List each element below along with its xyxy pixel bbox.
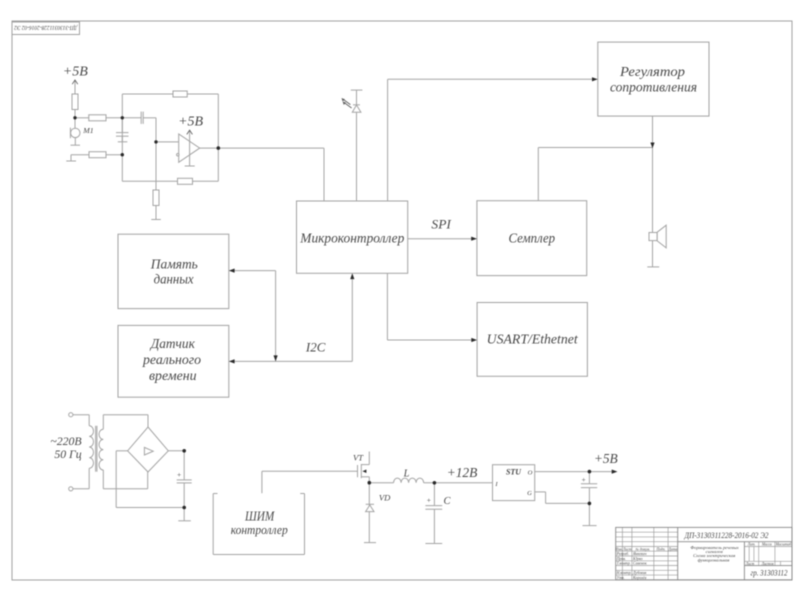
svg-text:Листов: Листов xyxy=(760,562,773,566)
svg-text:Датчик: Датчик xyxy=(149,336,196,351)
svg-text:Т.контр.: Т.контр. xyxy=(617,562,631,566)
svg-text:G: G xyxy=(527,490,532,497)
svg-text:Королёв: Королёв xyxy=(632,576,647,580)
svg-text:C: C xyxy=(444,496,452,507)
svg-text:Масса: Масса xyxy=(761,543,772,547)
svg-text:Юрко: Юрко xyxy=(632,557,643,561)
svg-text:времени: времени xyxy=(149,368,197,383)
svg-text:I2C: I2C xyxy=(305,341,326,355)
svg-text:Н.контр.: Н.контр. xyxy=(616,571,632,575)
svg-text:USART/Ethetnet: USART/Ethetnet xyxy=(487,332,579,347)
svg-text:ДП-3130311228-2016-02 Э2: ДП-3130311228-2016-02 Э2 xyxy=(684,530,769,540)
svg-text:Лист: Лист xyxy=(622,547,632,551)
svg-text:+5В: +5В xyxy=(63,65,88,80)
svg-text:Регулятор: Регулятор xyxy=(619,64,685,79)
svg-text:Пров.: Пров. xyxy=(616,557,626,561)
svg-text:Подп.: Подп. xyxy=(655,547,665,551)
svg-text:STU: STU xyxy=(506,468,522,477)
svg-text:Масштаб: Масштаб xyxy=(775,543,792,547)
svg-text:L: L xyxy=(403,469,410,480)
svg-text:+12В: +12В xyxy=(447,465,478,480)
svg-text:данных: данных xyxy=(154,271,194,286)
svg-text:Память: Память xyxy=(150,257,198,272)
svg-text:SPI: SPI xyxy=(431,218,451,232)
svg-text:50 Гц: 50 Гц xyxy=(54,447,81,461)
svg-text:+: + xyxy=(176,470,181,479)
svg-text:сопротивления: сопротивления xyxy=(610,79,697,94)
svg-text:Изм.: Изм. xyxy=(614,547,622,551)
svg-text:Семплер: Семплер xyxy=(509,231,556,246)
svg-text:Савенок: Савенок xyxy=(633,562,647,566)
svg-text:O: O xyxy=(528,470,533,477)
svg-text:Дата: Дата xyxy=(668,547,678,551)
svg-text:+: + xyxy=(581,475,586,484)
svg-text:Утв.: Утв. xyxy=(617,576,625,580)
svg-text:№ докум.: № докум. xyxy=(634,547,650,551)
svg-text:+5В: +5В xyxy=(594,451,618,466)
svg-text:+: + xyxy=(426,496,431,505)
svg-text:+5В: +5В xyxy=(178,114,203,129)
svg-text:Разраб.: Разраб. xyxy=(616,552,630,556)
svg-text:гр. 31303112: гр. 31303112 xyxy=(751,568,788,577)
svg-text:Лит.: Лит. xyxy=(747,543,756,547)
svg-text:Янкевич: Янкевич xyxy=(632,552,647,556)
svg-text:реального: реального xyxy=(142,352,201,367)
svg-text:М1: М1 xyxy=(82,126,93,135)
svg-text:ДП-3130311228-2016-02 Э2: ДП-3130311228-2016-02 Э2 xyxy=(14,24,78,31)
svg-text:VD: VD xyxy=(379,493,391,503)
svg-text:функциональная: функциональная xyxy=(698,557,730,562)
svg-text:Микроконтроллер: Микроконтроллер xyxy=(299,232,404,247)
svg-text:VT: VT xyxy=(353,453,364,463)
svg-text:контроллер: контроллер xyxy=(231,522,288,537)
svg-text:Лист: Лист xyxy=(745,562,755,566)
svg-text:Дубовик: Дубовик xyxy=(632,571,647,575)
